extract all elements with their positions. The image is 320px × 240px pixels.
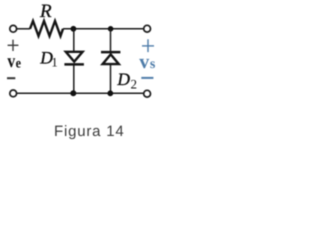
wire top-left: [17, 28, 30, 30]
diode D1 cathode bar: [64, 63, 84, 66]
plus sign output (blue): [142, 39, 154, 52]
terminal left bottom: [10, 90, 17, 97]
wire top-mid: [63, 28, 143, 30]
node top D1: [71, 26, 77, 32]
node top D2: [108, 26, 114, 32]
minus sign input: [7, 77, 15, 79]
diode D2 triangle: [103, 54, 119, 64]
wire D2 anode stub: [110, 64, 112, 93]
wire D1 anode stub: [73, 29, 75, 52]
terminal right top: [144, 25, 151, 32]
diode D2 cathode bar: [101, 51, 120, 54]
wire D2 cathode stub: [110, 29, 112, 52]
svg-text:2: 2: [131, 77, 138, 92]
wire D1 cathode stub: [73, 64, 75, 93]
svg-text:1: 1: [51, 55, 58, 70]
resistor R: [30, 21, 63, 36]
node bottom D2: [107, 90, 113, 96]
svg-text:v: v: [139, 51, 149, 73]
bottom rail wire: [17, 92, 144, 94]
svg-text:s: s: [150, 57, 156, 72]
svg-text:D: D: [116, 69, 130, 89]
node bottom D1: [70, 90, 76, 96]
svg-text:R: R: [39, 1, 52, 22]
terminal right bottom: [144, 90, 151, 97]
terminal left top: [10, 25, 17, 32]
svg-text:Figura 14: Figura 14: [54, 123, 125, 140]
diode D1 triangle: [66, 52, 83, 62]
plus sign input: [8, 40, 19, 51]
svg-text:v: v: [7, 51, 15, 72]
svg-text:e: e: [16, 57, 21, 72]
minus sign output (blue): [141, 77, 153, 79]
